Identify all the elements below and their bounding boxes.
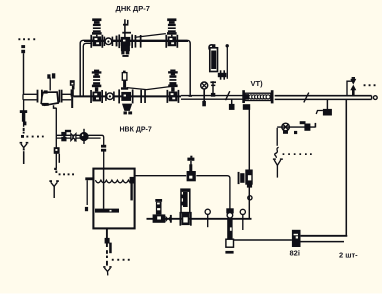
top-left dotted continuation (18, 38, 35, 40)
dots filter drain (55, 171, 74, 176)
ball valve V2 (bypass) (104, 37, 114, 46)
box B2 (292, 230, 301, 247)
svg-text:2 шт-: 2 шт- (339, 251, 358, 260)
wire left drain from pipe (23, 100, 25, 111)
wire tank feed line (56, 135, 103, 168)
ball valve V6 (main) (105, 92, 115, 101)
filter F1 flanges left (37, 90, 43, 103)
gauge C7 (240, 209, 245, 230)
wire main double line right (275, 96, 372, 100)
label DNK DP-7 top (116, 4, 150, 13)
svg-text:82і: 82і (290, 249, 300, 258)
valve V8 actuator (168, 70, 178, 92)
funnel F3 (273, 158, 283, 177)
control valve V7 flanges (118, 89, 133, 103)
spring safety valve V15 (180, 189, 192, 226)
valve V1 body (bypass left) (90, 35, 103, 48)
tee valve on left drain (20, 110, 27, 125)
tank internal standpipe (130, 177, 135, 201)
tank level gauge (85, 177, 94, 211)
wire igniter drop (276, 128, 278, 146)
svg-text:VT): VT) (251, 79, 264, 88)
wire tank outlet (135, 175, 187, 177)
wire pump discharge (234, 239, 292, 241)
control valve V3 positioner below (121, 45, 130, 57)
valve V9 on drop line (238, 170, 253, 188)
control valve V7 stem and actuator (121, 71, 128, 90)
PSV outlet fitting (218, 70, 227, 79)
wire inlet vertical (23, 53, 25, 94)
igniter gauge (282, 123, 290, 134)
wire long drop corner (301, 234, 347, 237)
funnel F1 (20, 142, 29, 164)
small circle on drop line (248, 196, 252, 200)
flex joint right flange (271, 90, 274, 103)
igniter end tick (315, 123, 317, 128)
valve V5 body (main left) (90, 90, 103, 103)
wire bypass riser inner (83, 43, 91, 96)
gauge C6 (205, 209, 210, 227)
wire box outlet (301, 241, 345, 243)
filter top tag marks (47, 73, 55, 78)
wire bypass line (84, 40, 188, 42)
funnel F2 (103, 266, 111, 275)
wire pipe double after filter (63, 94, 72, 100)
wire long drop right (345, 99, 347, 235)
label S2 (290, 249, 300, 258)
end circle (373, 96, 377, 100)
break squiggle (275, 147, 279, 158)
dots top right (364, 84, 376, 86)
pump column P2 (225, 208, 233, 253)
flex joint left flange (242, 90, 245, 103)
bottom white strip (0, 294, 382, 299)
wire inlet pipe double line (23, 94, 37, 100)
dots tank drain (112, 259, 130, 261)
control valve V7 base cone (122, 104, 132, 115)
valve V14 with actuator box (153, 199, 172, 223)
valve V4 body (bypass right) (165, 35, 178, 48)
valve V10 on tank inlet (100, 145, 106, 152)
ball valve C8 on feed (61, 132, 66, 141)
tank shell (93, 169, 134, 229)
wire tank drain (106, 228, 108, 265)
control valve V3 flanges (116, 35, 142, 49)
filter outlet flanges (59, 90, 63, 103)
filter F1 body (41, 90, 58, 108)
igniter cap (300, 121, 306, 124)
wire filter drain (55, 108, 57, 168)
funnel F4 on filter drain (49, 180, 58, 198)
safety valve PSV (209, 44, 217, 71)
line break slash 1 (226, 91, 230, 100)
slope line main (127, 86, 175, 90)
inlet riser tag blocks (21, 45, 25, 53)
svg-text:ДНК ДР-7: ДНК ДР-7 (116, 4, 150, 13)
pressure gauge G1 (201, 82, 208, 106)
gauge C9 on feed (79, 129, 88, 144)
tank sparger bar (95, 209, 119, 213)
cap above feed (65, 130, 71, 132)
control valve V7 body (121, 92, 131, 101)
valve V4 actuator (167, 18, 177, 36)
wire bypass riser outer (80, 40, 190, 96)
wire drop from flex (248, 110, 250, 219)
flex drain block (243, 104, 250, 110)
tank water wavy line (95, 180, 133, 183)
igniter line (277, 126, 315, 128)
riser valve top right (347, 77, 356, 96)
valve V8 body (main right) (167, 90, 180, 103)
drain stub S1 (229, 99, 235, 110)
dots left drain (21, 135, 44, 138)
svg-text:НВК ДР-7: НВК ДР-7 (120, 127, 152, 134)
label 2sht (339, 251, 358, 260)
dots mid right (283, 153, 312, 155)
wire left drain lower (23, 119, 25, 133)
wire main line y96 (73, 95, 242, 99)
valve V13 on outlet (187, 156, 196, 182)
flange pair D2 (140, 90, 146, 103)
line break slash 2 (304, 93, 309, 103)
bowtie valve V11 on feed (71, 134, 77, 142)
label VT (251, 79, 264, 88)
tank drain valve hook (105, 238, 112, 253)
control valve V3 stem and handle (122, 19, 131, 37)
hand valve H1 (210, 81, 216, 97)
valve V5 actuator (92, 70, 102, 92)
drain tee T2 (316, 99, 332, 115)
igniter block (304, 124, 310, 131)
filter top stem (49, 78, 51, 91)
label NVK DR-7 (120, 127, 152, 134)
igniter small mark (294, 131, 297, 134)
control valve V3 body (121, 37, 131, 46)
tank inlet dip tube (103, 169, 105, 209)
capped tee bar (71, 89, 74, 108)
wire outlet to pump (196, 176, 230, 210)
wire bottom line (147, 218, 252, 220)
slope line bypass (135, 34, 166, 38)
small relief circle on tee (70, 80, 75, 89)
PSV vent pipe (226, 44, 229, 79)
valve V12 on filter drain (54, 147, 60, 170)
valve V1 actuator (92, 18, 102, 36)
flex joint coil body (245, 93, 271, 100)
